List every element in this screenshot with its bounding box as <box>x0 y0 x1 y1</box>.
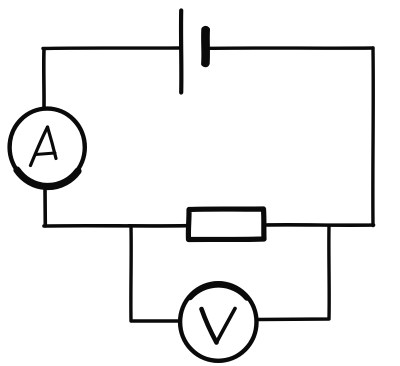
ammeter A1 circle <box>10 109 85 187</box>
wire top right (battery to right corner) <box>209 46 373 50</box>
wire bottom left horizontal <box>44 224 188 228</box>
wire right vertical <box>371 48 375 226</box>
voltmeter branch right (horizontal + vertical) <box>259 226 330 320</box>
wire top left (to battery negative plate) <box>43 46 180 50</box>
resistor R1 box <box>188 209 264 240</box>
wire left vertical (battery to ammeter) <box>42 49 46 107</box>
wire bottom right horizontal <box>264 223 374 227</box>
battery cell B1 positive plate (short thick) <box>201 26 210 67</box>
battery cell B1 negative plate (long thin) <box>179 11 184 93</box>
voltmeter letter V <box>202 309 236 343</box>
voltmeter branch left (vertical + horizontal) <box>131 226 178 321</box>
wire ammeter bottom <box>43 188 47 227</box>
ammeter letter A <box>31 127 57 166</box>
voltmeter V1 circle <box>180 283 256 361</box>
